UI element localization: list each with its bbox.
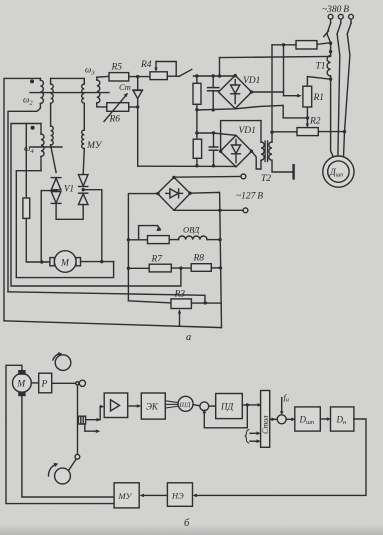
svg-text:а: а	[186, 332, 191, 343]
pulley circle	[55, 468, 71, 484]
block P	[39, 373, 52, 393]
wire long vertical to T2	[271, 45, 273, 133]
fuse resistor	[296, 41, 317, 49]
wire feedback line to R3 row	[8, 292, 205, 303]
junction dot res1 bottom	[195, 108, 198, 111]
arrow fn input	[280, 398, 283, 416]
polarity dot w4	[31, 126, 35, 130]
motor M2 brush top	[18, 370, 25, 375]
transformer T2 right winding	[269, 133, 294, 172]
junction dot R2 phase3	[343, 130, 346, 133]
wire ShD to sum1	[193, 405, 200, 406]
junction dot bridge3 right	[188, 192, 191, 195]
wire nut to amp	[86, 405, 104, 422]
pivot open circle	[79, 380, 85, 386]
capacitor C2 feed	[213, 133, 215, 147]
terminal 127V upper	[241, 174, 246, 179]
magamp working winding top	[51, 77, 85, 79]
wire resistor to motor left brush	[26, 218, 50, 262]
wire M2 top feedback	[6, 365, 114, 503]
wire phase2	[337, 34, 340, 156]
resistor R3	[171, 299, 191, 309]
pivot small circle	[76, 382, 79, 385]
transformer T2 left winding	[261, 121, 264, 161]
junction dot R7R8	[179, 266, 182, 269]
svg-text:НЭ: НЭ	[171, 491, 184, 501]
zener Ct triangle	[133, 90, 142, 98]
polarity dot w2	[30, 79, 34, 83]
terminal bar	[292, 165, 294, 178]
svg-text:Стол: Стол	[261, 415, 270, 434]
junction dot res2 bottom	[195, 164, 198, 167]
motor Dsp outer circle	[323, 156, 354, 187]
switch blade phase 3	[347, 23, 351, 34]
wire V1 left tap to motor	[41, 191, 56, 262]
wire from winding w2 bottom down left side	[8, 104, 40, 292]
R4 wiper loop wire	[156, 62, 176, 77]
wire bridge2 left up over to T2	[221, 121, 261, 152]
wire V1 bottoms U link	[56, 203, 83, 219]
winding OVD coil	[169, 236, 220, 240]
wire rail to T1 top	[220, 56, 331, 57]
junction dot phase1 T1 top	[329, 50, 332, 53]
wire fuse left	[272, 44, 296, 46]
wire R2 left to T2 node	[272, 131, 297, 133]
stub phase 1	[330, 19, 332, 23]
junction dot phase1 fuse	[329, 42, 332, 45]
arrow table input 2	[250, 439, 261, 443]
diode V1a	[51, 178, 61, 190]
junction dot fuse tap	[282, 43, 285, 46]
motor M circle	[54, 251, 76, 273]
junction dot bridge2 left	[219, 150, 222, 153]
svg-text:М: М	[60, 259, 70, 269]
zener Ct stem bottom	[137, 99, 139, 107]
junction dot OVD right	[218, 238, 221, 241]
svg-text:М: М	[16, 380, 26, 390]
wire PD out	[242, 404, 258, 406]
wire Dn to NE feedback	[197, 419, 367, 495]
junction dot V1 left	[54, 189, 57, 192]
junction dot node a1	[195, 74, 198, 77]
wire bridge3 top to terminal	[174, 175, 241, 178]
wire M2 bottom feedback	[22, 396, 114, 497]
arrow through R6	[104, 93, 128, 121]
winding w2 coil	[40, 78, 43, 103]
wire R1 bottom to R2 wiper	[306, 107, 309, 128]
zener Ct bar	[133, 89, 143, 91]
block Dsp	[295, 407, 321, 431]
rheostat OVD pot	[148, 236, 170, 244]
rotation arrow upper	[53, 352, 71, 370]
wire bottom feedback line to right rail	[4, 321, 222, 328]
bridge VD1 upper inner diode	[231, 80, 240, 104]
wire phase3	[344, 34, 350, 158]
R4 wiper arrow	[154, 62, 157, 73]
wire w3 bottom to R6	[97, 103, 107, 107]
junction dot C2 bottom	[212, 164, 215, 167]
summing circle 1	[200, 402, 209, 411]
junction dot bridge2 right	[250, 150, 253, 153]
magamp working winding right side	[82, 78, 85, 174]
transformer T1 winding	[327, 56, 331, 76]
terminal phase 3	[349, 14, 354, 19]
svg-text:Т1: Т1	[316, 62, 326, 72]
diode V1d	[78, 194, 88, 205]
rectifier bridge VD1 lower diamond	[220, 135, 251, 167]
junction dot bridge3 top	[172, 176, 175, 179]
zener Ct stem top	[137, 77, 139, 90]
svg-text:МУ: МУ	[118, 491, 133, 501]
block NE	[167, 483, 192, 507]
resistor shunt upper vertical	[193, 76, 201, 110]
arrow NE to MU	[140, 494, 168, 498]
wire Ct down to lower rail	[137, 107, 139, 166]
wire P to pivot	[52, 382, 76, 384]
wire R4 to switch	[167, 75, 179, 77]
screw lower circle	[75, 454, 80, 459]
wire lower rail 166	[138, 165, 236, 167]
switch link tick	[324, 31, 329, 37]
resistor R1	[303, 86, 312, 107]
winding w4 coil	[41, 124, 44, 171]
core line lower	[30, 146, 62, 148]
arrow into table	[258, 403, 263, 407]
svg-text:VD1: VD1	[239, 126, 256, 136]
svg-text:ОВД: ОВД	[183, 225, 200, 235]
junction dot motor left	[40, 260, 43, 263]
wire PD feedback loop	[203, 405, 248, 428]
wire M2 to P	[31, 382, 38, 384]
magamp working winding left side	[51, 78, 57, 172]
diode V1c cathode bar	[79, 186, 88, 188]
wire sum1 to PD	[209, 405, 216, 407]
bridge inner diode	[166, 189, 183, 198]
resistor R8	[191, 264, 211, 272]
link EK to ShD	[165, 401, 178, 408]
wire R3 row left	[128, 301, 171, 303]
wire phase1 upper	[327, 34, 331, 56]
resistor left column	[23, 198, 30, 218]
wire R2 right to phase3	[318, 131, 344, 133]
wire node110 down to node133	[196, 110, 198, 133]
resistor R7	[149, 264, 171, 272]
svg-text:ШД: ШД	[179, 402, 192, 409]
junction dot motor right	[100, 260, 103, 263]
switch blade phase 1	[327, 23, 331, 34]
svg-text:Р: Р	[41, 380, 48, 390]
wire bridge2 right to T2 bottom	[252, 151, 261, 169]
capacitor C1 lower stem	[212, 91, 214, 110]
svg-text:б: б	[184, 518, 190, 529]
wire phase1 lower	[331, 76, 334, 158]
svg-text:V1: V1	[64, 184, 74, 194]
winding w3 coil	[97, 77, 100, 103]
capacitor C2 plates	[209, 147, 217, 150]
arrow into NE	[193, 494, 198, 498]
rectifier bridge VD1 upper diamond	[219, 75, 252, 108]
nut slide	[78, 416, 85, 424]
core line upper	[30, 92, 109, 94]
stub phase 3	[350, 19, 352, 23]
svg-text:VD1: VD1	[243, 76, 260, 86]
svg-text:R8: R8	[193, 254, 205, 264]
svg-text:ПД: ПД	[220, 402, 234, 412]
svg-text:R3: R3	[174, 290, 186, 300]
junction dot OVD left	[127, 238, 130, 241]
block table Stol	[261, 391, 270, 448]
arrow amp to EK	[128, 404, 142, 408]
wire R8 right	[211, 267, 220, 269]
svg-text:Ст: Ст	[119, 82, 131, 92]
arrow sum2 to Dsp	[286, 418, 296, 422]
wire table to sum2	[270, 418, 278, 422]
wire switch to bridge node	[194, 75, 236, 77]
svg-text:~380 В: ~380 В	[322, 5, 349, 15]
resistor shunt lower vertical	[193, 133, 201, 166]
brace inputs	[245, 430, 249, 444]
wire R7 R8	[171, 267, 191, 269]
junction dot bridge3 left	[156, 192, 159, 195]
rectifier bridge lower diamond	[158, 177, 191, 210]
svg-text:R2: R2	[309, 117, 321, 127]
diode V1a cathode bar	[51, 177, 61, 179]
screw line	[77, 385, 79, 455]
arrow Dsp to Dn	[320, 417, 331, 421]
motor M2 circle	[13, 374, 32, 393]
switch SA blade	[179, 69, 192, 76]
block amplifier	[104, 393, 128, 418]
capacitor C2 lower stem	[213, 150, 215, 166]
wire OVD row left	[128, 239, 147, 241]
block EK	[141, 393, 165, 419]
resistor R5	[109, 73, 129, 81]
wire fuse right to phase1	[317, 43, 331, 45]
junction dot R6 Ct	[136, 105, 139, 108]
junction dot Ct top	[136, 75, 139, 78]
junction dot R1 bottom node	[306, 116, 309, 119]
arrow table input 1	[250, 432, 261, 436]
resistor R2	[297, 128, 318, 136]
svg-text:R1: R1	[313, 93, 325, 103]
diode V1b	[51, 192, 61, 203]
wire bridge3 bottom to terminal	[174, 209, 243, 211]
capacitor C1 plates	[208, 88, 219, 91]
svg-text:R5: R5	[111, 63, 123, 73]
switch blade phase 2	[337, 23, 341, 34]
terminal phase 1	[328, 14, 333, 19]
junction dot rail 127	[218, 209, 221, 212]
motor M brush left	[50, 258, 55, 266]
arrow nut lower	[85, 424, 101, 433]
wire fuse tap column	[283, 45, 285, 96]
svg-text:~127 В: ~127 В	[236, 192, 263, 202]
pot tap arrow	[139, 226, 162, 240]
wire bridge1 right output	[252, 91, 284, 93]
svg-text:ЭК: ЭК	[146, 402, 159, 412]
wire bridge3 right rail	[190, 192, 221, 327]
winding w4 top wire to left vertical and R7R8 line	[11, 124, 181, 287]
wire V1 right tap to motor	[83, 190, 102, 262]
stub phase 2	[340, 19, 342, 23]
belt line	[68, 459, 76, 471]
wire T1 bottom to R1	[307, 77, 330, 87]
motor M2 brush bottom	[18, 391, 25, 396]
rotation arrow lower	[48, 463, 58, 476]
svg-text:МУ: МУ	[86, 141, 103, 151]
wire node133	[197, 133, 236, 135]
summing circle 2	[277, 415, 286, 424]
junction dot n133 a	[195, 131, 198, 134]
winding w4 bottom wire to motor loop	[16, 171, 113, 278]
junction dot PD out	[246, 403, 249, 406]
junction dot R3 row	[204, 301, 207, 304]
diode V1c	[78, 175, 88, 186]
gauge ShD circle	[178, 396, 193, 411]
block MU2	[114, 483, 139, 508]
transformer T2 core	[265, 141, 268, 162]
bridge VD1 lower inner diode	[231, 140, 240, 163]
junction dot bridge1 top	[234, 74, 237, 77]
svg-text:Т2: Т2	[261, 174, 271, 184]
junction dot C1 bottom	[212, 108, 215, 111]
junction dot T2 top	[270, 131, 273, 134]
wire node up to rail	[219, 58, 221, 76]
wire R3 row right	[191, 302, 221, 304]
block Dn	[331, 407, 354, 431]
block PD	[216, 394, 243, 419]
diode V1d cathode bar	[79, 192, 88, 194]
wire left outer from winding w2 top down to bottom line	[4, 78, 40, 320]
resistor R4	[150, 72, 167, 80]
resistor R6	[107, 103, 129, 112]
motor Dsp inner circle	[328, 161, 349, 182]
junction dot node a3	[218, 74, 221, 77]
terminal 127V lower	[243, 208, 248, 213]
junction dot V1 right	[82, 188, 85, 191]
svg-text:R7: R7	[151, 255, 164, 265]
terminal phase 2	[338, 14, 343, 19]
wire bridge1 lower rail	[197, 105, 308, 118]
wire resistor column tap	[25, 124, 27, 199]
wire w3 top to R5	[97, 75, 109, 78]
svg-text:R6: R6	[109, 115, 121, 125]
wire R6 to Ct node	[129, 106, 138, 108]
junction dot node a2	[212, 74, 215, 77]
diode V1b cathode bar	[51, 202, 61, 204]
wire bridge3 left rail	[128, 194, 158, 301]
junction dot T1 bottom	[329, 78, 332, 81]
svg-text:R4: R4	[140, 60, 152, 70]
wire R7 left	[128, 267, 149, 269]
wire motor right to loop	[81, 261, 114, 263]
R1 wiper arrow	[284, 94, 302, 98]
motor M brush right	[76, 258, 81, 266]
wire R5 to R4	[129, 76, 150, 78]
junction dot bridge1 right	[250, 90, 253, 93]
junction dot n133 b	[212, 131, 215, 134]
R3 wiper arrow	[178, 309, 181, 326]
junction dot R7 left	[127, 267, 130, 270]
capacitor C1 feed	[212, 76, 214, 88]
junction dot R8 right	[219, 266, 222, 269]
